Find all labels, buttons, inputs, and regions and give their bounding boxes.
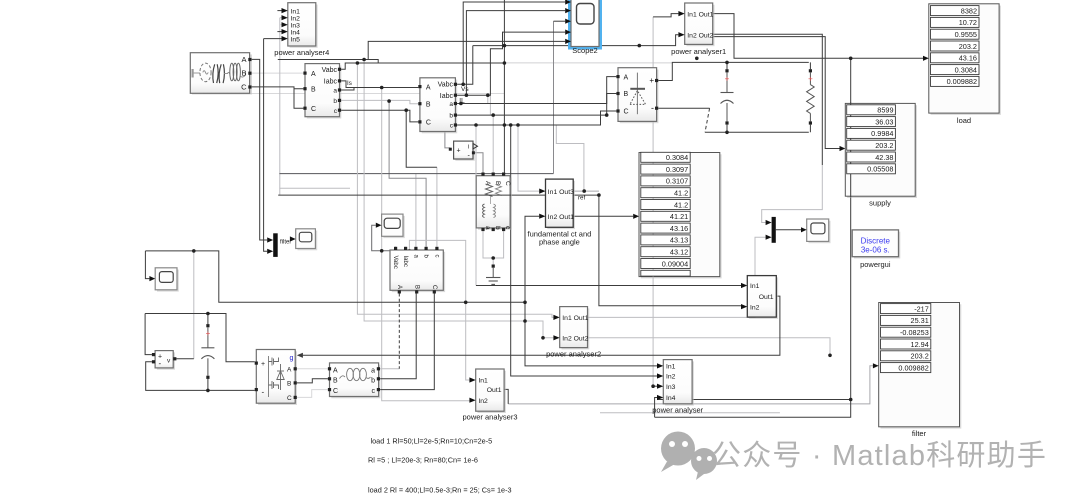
svg-text:8599: 8599	[877, 106, 893, 115]
display supply value cells	[847, 105, 896, 174]
svg-text:-: -	[262, 388, 265, 397]
svg-text:In1: In1	[666, 364, 676, 371]
wire meas3 b column	[389, 101, 426, 247]
wire gate g loop	[303, 296, 780, 355]
svg-text:In2: In2	[478, 398, 488, 405]
wire meas2 Vabc to Scope2 in1	[463, 2, 565, 84]
svg-text:B: B	[624, 91, 629, 98]
svg-text:In5: In5	[291, 36, 301, 43]
gate arrowhead	[297, 353, 303, 358]
power analyser2	[546, 307, 601, 359]
wire pa4 col	[279, 18, 281, 195]
wire pa1 Out1 to load display	[713, 14, 923, 59]
svg-text:C: C	[241, 83, 247, 92]
svg-text:a: a	[371, 367, 375, 374]
svg-text:203.2: 203.2	[875, 141, 893, 150]
wire Scope2 in3	[554, 20, 566, 22]
current measurement block	[449, 141, 478, 161]
svg-text:In1 Out3: In1 Out3	[548, 189, 574, 196]
display load	[923, 4, 1001, 125]
svg-text:Out1: Out1	[759, 294, 774, 301]
svg-text:supply: supply	[869, 199, 891, 208]
wire ref feed column	[556, 125, 584, 191]
svg-text:0.3097: 0.3097	[666, 165, 688, 174]
svg-text:12.94: 12.94	[911, 340, 929, 349]
svg-text:power analyser1: power analyser1	[671, 47, 726, 56]
svg-text:Scope2: Scope2	[572, 46, 597, 55]
wire center column	[503, 0, 505, 173]
wire dc rail top left	[145, 314, 255, 362]
fundamental ct and phase angle block	[528, 179, 592, 246]
series RLC branch capacitor C1	[721, 69, 734, 124]
svg-text:-: -	[159, 359, 162, 368]
svg-text:C: C	[333, 388, 338, 395]
wire v net to scopes and fundamental In2	[145, 216, 539, 359]
series RLC branch capacitor C2	[201, 324, 214, 379]
wire ref line over transformer	[475, 194, 511, 196]
wire Is meas1 Iabc to meas2 A	[340, 81, 418, 88]
svg-text:a: a	[333, 88, 337, 95]
three-phase series RLC branch inductor	[328, 363, 381, 398]
wire meas2 Iabc out	[457, 32, 565, 95]
svg-text:42.38: 42.38	[875, 153, 893, 162]
svg-text:10.72: 10.72	[959, 18, 977, 27]
wire meas1 c down	[340, 110, 437, 167]
svg-text:C: C	[504, 181, 511, 186]
wire inductor b to meas3 B	[380, 294, 416, 379]
svg-text:a: a	[449, 101, 453, 108]
display fundamental value cells	[641, 152, 690, 276]
wire inductor c to meas3 C	[380, 294, 434, 390]
svg-text:A: A	[426, 84, 431, 91]
svg-text:Iabc: Iabc	[324, 79, 338, 86]
svg-text:+: +	[725, 75, 730, 84]
svg-text:Vabc: Vabc	[322, 67, 338, 74]
svg-text:filter: filter	[280, 240, 291, 246]
wire pa2 In1	[357, 63, 553, 317]
svg-text:43.16: 43.16	[959, 54, 977, 63]
svg-text:Vs: Vs	[461, 86, 469, 93]
svg-text:A: A	[241, 55, 246, 64]
svg-text:B: B	[413, 285, 419, 289]
wire meas1 Vabc along y63	[340, 63, 504, 69]
svg-text:b: b	[449, 113, 453, 120]
BLOCKS	[149, 0, 1001, 438]
wire pa1 In2	[473, 35, 679, 46]
svg-text:0.3084: 0.3084	[955, 65, 977, 74]
svg-text:power analyser2: power analyser2	[546, 350, 601, 359]
wire y63 gray extension	[504, 62, 672, 64]
WIRES_DARK	[145, 0, 923, 417]
svg-text:+: +	[206, 329, 211, 338]
wire fundamental Out3	[573, 190, 599, 192]
wire cluster column a	[487, 95, 489, 103]
wire meas2 c to rectifier C	[457, 111, 616, 125]
wire fundamental In1 feed column	[518, 125, 539, 191]
mux filter	[267, 233, 291, 257]
svg-text:Rl =5 ; Ll=20e-3; Rn=80;Cn= 1e: Rl =5 ; Ll=20e-3; Rn=80;Cn= 1e-6	[368, 456, 478, 465]
svg-text:In2 Out2: In2 Out2	[687, 32, 713, 39]
svg-text:In4: In4	[291, 29, 301, 36]
svg-text:41.2: 41.2	[674, 200, 688, 209]
svg-text:A: A	[287, 367, 292, 374]
three-phase programmable voltage source	[190, 53, 252, 95]
svg-text:B: B	[241, 69, 246, 78]
svg-text:powergui: powergui	[860, 260, 891, 269]
svg-text:In1: In1	[291, 8, 301, 15]
wire igbt A to inductor A	[297, 368, 328, 370]
powergui	[852, 230, 900, 269]
three-phase V-I measurement 1	[303, 64, 341, 119]
wire meas3 c column	[436, 167, 438, 247]
wire meas2 Vabc out	[457, 46, 473, 85]
wire pa3 Out1 stub	[504, 389, 508, 404]
wire transformer B column	[492, 115, 494, 172]
svg-text:C: C	[431, 285, 437, 290]
svg-text:C: C	[287, 395, 292, 402]
svg-text:c: c	[372, 388, 376, 395]
svg-text:In1: In1	[478, 378, 488, 385]
wire mux right to scope	[776, 229, 801, 231]
svg-text:+: +	[808, 75, 813, 84]
svg-text:A: A	[396, 285, 402, 289]
svg-text:In2: In2	[666, 374, 676, 381]
svg-text:B: B	[333, 377, 338, 384]
wire pa2 Out1 to mux right in2	[588, 237, 766, 317]
svg-text:+: +	[649, 76, 654, 85]
wire current measurement to transformer A	[475, 153, 483, 173]
ground under transformer	[486, 265, 500, 285]
wire mystery rail	[203, 93, 504, 95]
three-phase V-I measurement 2	[418, 78, 469, 134]
WIRES_GRAY	[194, 17, 873, 413]
display filter value cells	[881, 304, 931, 373]
wire bus upper left pair	[278, 60, 378, 64]
wire dc rail bottom left	[146, 362, 255, 391]
svg-text:B: B	[287, 381, 291, 388]
svg-text:Is: Is	[347, 80, 352, 87]
svg-text:Vabc: Vabc	[392, 256, 398, 269]
svg-text:In2: In2	[750, 304, 760, 311]
svg-text:203.2: 203.2	[959, 42, 977, 51]
power analyser4	[274, 3, 329, 57]
svg-text:load 2 Rl = 400;Ll=0.5e-3;Rn =: load 2 Rl = 400;Ll=0.5e-3;Rn = 25; Cs= 1…	[368, 486, 512, 495]
wire supply column over display	[850, 102, 852, 197]
wire to subsys In2	[599, 195, 741, 306]
wire pa1 Out2 down to mux right in1	[762, 165, 823, 223]
IGBT inverter bridge	[255, 350, 297, 406]
svg-text:0.009882: 0.009882	[898, 363, 928, 372]
svg-text:A: A	[333, 367, 338, 374]
svg-text:0.009882: 0.009882	[947, 77, 977, 86]
wire fundamental Out1 to display	[573, 215, 633, 217]
wire pa1 In1	[653, 14, 678, 17]
wire rail left mid 2	[279, 187, 350, 189]
svg-text:g: g	[290, 355, 294, 362]
display load value cells	[931, 6, 980, 87]
svg-text:b: b	[371, 377, 375, 384]
svg-text:0.05508: 0.05508	[867, 165, 893, 174]
svg-text:C: C	[311, 106, 316, 113]
wire meas1 b to meas2 B	[340, 100, 418, 103]
svg-text:load 1 Rl=50;Ll=2e-5;Rn=10;Cn=: load 1 Rl=50;Ll=2e-5;Rn=10;Cn=2e-5	[371, 437, 493, 446]
wire v measurement up	[193, 251, 195, 359]
svg-text:b: b	[494, 226, 501, 230]
subsystem In1 In2 Out1	[741, 276, 778, 319]
universal bridge diode rectifier	[616, 68, 658, 124]
power analyser	[652, 360, 703, 415]
svg-text:43.12: 43.12	[670, 248, 688, 257]
scope left	[149, 268, 178, 292]
wire igbt C to inductor C	[297, 390, 328, 398]
svg-text:0.9984: 0.9984	[871, 129, 893, 138]
wire pa In3 stub	[653, 385, 657, 387]
wire meas3 a column	[415, 174, 417, 247]
svg-text:41.2: 41.2	[674, 189, 688, 198]
svg-text:Vabc: Vabc	[438, 82, 454, 89]
wire pa4 In5 column to mux filter in2	[264, 39, 268, 252]
wire source B to meas1 A	[250, 72, 303, 74]
wire scope left input	[145, 251, 149, 279]
scope Scope2 (selected, blue highlight)	[565, 0, 600, 55]
wire source A to mux filter in1	[250, 59, 267, 240]
svg-text:0.3107: 0.3107	[666, 177, 688, 186]
svg-text:0.3084: 0.3084	[666, 153, 688, 162]
wire cluster column b	[489, 95, 491, 115]
svg-text:Out1: Out1	[487, 387, 502, 394]
svg-text:filter: filter	[912, 429, 927, 438]
wire tap to rectifier B	[607, 94, 617, 116]
wire meas3 Vabc out to scope	[372, 225, 396, 251]
wire igbt B to inductor B	[297, 379, 328, 383]
wire pa4 In5	[264, 38, 282, 40]
wire meas2 Iabc to Scope2 in2	[466, 11, 565, 96]
wire pa2 In2	[364, 60, 553, 338]
svg-text:43.16: 43.16	[670, 224, 688, 233]
svg-text:phase angle: phase angle	[539, 238, 580, 247]
svg-text:In1 Out1: In1 Out1	[687, 11, 713, 18]
wire to subsys In1	[476, 285, 741, 287]
wire pa In4 and rail	[655, 58, 851, 417]
svg-text:-217: -217	[914, 304, 929, 313]
svg-text:In2 Out2: In2 Out2	[562, 336, 588, 343]
svg-text:0.09004: 0.09004	[662, 259, 688, 268]
svg-text:In2 Out1: In2 Out1	[548, 214, 574, 221]
svg-text:ref: ref	[578, 195, 586, 202]
wire rail left mid 1	[279, 173, 553, 175]
wire rectifier minus rail	[658, 108, 810, 132]
wire meas3 A column dashed	[398, 294, 400, 369]
series RLC branch resistor R1	[807, 69, 815, 124]
display supply	[840, 103, 918, 207]
svg-text:a: a	[484, 226, 491, 230]
svg-text:In1 Out1: In1 Out1	[562, 315, 588, 322]
svg-text:Iabc: Iabc	[402, 256, 408, 267]
svg-text:B: B	[426, 101, 431, 108]
svg-text:power analyser3: power analyser3	[462, 413, 517, 422]
three-phase V-I measurement 3 (rotated)	[390, 247, 445, 294]
wire pa4 In4 stub	[277, 31, 281, 33]
svg-text:+: +	[457, 148, 461, 155]
svg-text:A: A	[624, 74, 629, 81]
svg-text:41.21: 41.21	[670, 212, 688, 221]
power analyser1	[671, 3, 726, 56]
wire pa In3 column over display	[652, 152, 654, 278]
wire source C to meas1 B C	[250, 87, 303, 108]
wire pa3 In2 column	[382, 88, 470, 401]
svg-text:Iabc: Iabc	[440, 93, 454, 100]
wire pa4 In1 stub	[277, 10, 281, 12]
svg-text:43.13: 43.13	[670, 236, 688, 245]
wire meas2 b to rectifier B column	[457, 114, 607, 116]
svg-text:i: i	[468, 145, 469, 151]
svg-text:A: A	[311, 71, 316, 78]
wire pa3 Out1 to filter display	[508, 366, 873, 404]
svg-text:C: C	[426, 120, 431, 127]
display filter	[873, 303, 961, 439]
wire meas1 a join	[340, 88, 354, 91]
svg-text:-: -	[651, 103, 654, 113]
svg-text:公众号 · Matlab科研助手: 公众号 · Matlab科研助手	[712, 439, 1047, 472]
svg-text:In1: In1	[750, 283, 760, 290]
svg-text:3e-06 s.: 3e-06 s.	[861, 246, 890, 255]
OVERLAY WIRES	[475, 102, 851, 277]
scope above measurement 3	[376, 214, 405, 238]
svg-text:power analyser: power analyser	[652, 405, 703, 414]
display fundamental values	[633, 153, 721, 279]
svg-text:In3: In3	[666, 384, 676, 391]
svg-text:B: B	[311, 86, 316, 93]
svg-text:load: load	[957, 116, 971, 125]
wire rectifier plus rail	[658, 62, 810, 80]
wire pa2 Out2	[588, 338, 831, 356]
wire meas3 Iabc out to pa3 In1	[406, 240, 470, 380]
wire ref long line	[278, 194, 599, 196]
wire meas2 a to rectifier A	[457, 77, 616, 104]
svg-text:25.31: 25.31	[911, 316, 929, 325]
svg-text:+: +	[261, 361, 265, 368]
wire rectifier minus diagonal dashed	[705, 108, 710, 132]
svg-text:IL: IL	[459, 97, 465, 104]
wire rail under power analyser	[600, 412, 780, 414]
wire pa1 Out2 pair	[713, 34, 840, 165]
svg-text:8382: 8382	[961, 6, 977, 15]
svg-text:In4: In4	[666, 395, 676, 402]
wire Scope2 in3 column	[553, 21, 555, 173]
voltage measurement	[152, 351, 177, 370]
scope beside mux filter	[290, 229, 317, 251]
svg-text:0.9555: 0.9555	[955, 30, 977, 39]
wire subsys In1 feed column	[475, 125, 477, 286]
svg-text:B: B	[494, 181, 501, 185]
watermark wechat icon	[661, 432, 717, 481]
wire pa4 In2 stub	[280, 17, 282, 19]
svg-text:b: b	[333, 98, 337, 105]
three-phase transformer (rotated)	[476, 173, 512, 232]
scope right of mux	[801, 219, 831, 243]
svg-text:power analyser4: power analyser4	[274, 48, 329, 57]
wire to Scope2 in5	[368, 41, 565, 59]
wire inductor a out	[380, 368, 399, 370]
wire transformer secondary to ground	[483, 231, 504, 264]
svg-text:36.03: 36.03	[875, 117, 893, 126]
svg-text:C: C	[624, 109, 629, 116]
svg-text:203.2: 203.2	[911, 352, 929, 361]
wire rail mid right	[657, 399, 851, 401]
power analyser3	[462, 369, 517, 422]
wire pa4 In3 stub	[281, 24, 282, 26]
svg-text:c: c	[434, 255, 440, 258]
wire pa In1	[525, 302, 657, 366]
wire pa In2	[511, 125, 657, 376]
svg-text:-0.08253: -0.08253	[900, 328, 929, 337]
svg-text:In2: In2	[291, 15, 301, 22]
wire current measurement input column	[445, 125, 450, 148]
svg-text:Discrete: Discrete	[861, 237, 891, 246]
wire pa In3 column	[652, 17, 654, 386]
mux right	[766, 217, 776, 243]
